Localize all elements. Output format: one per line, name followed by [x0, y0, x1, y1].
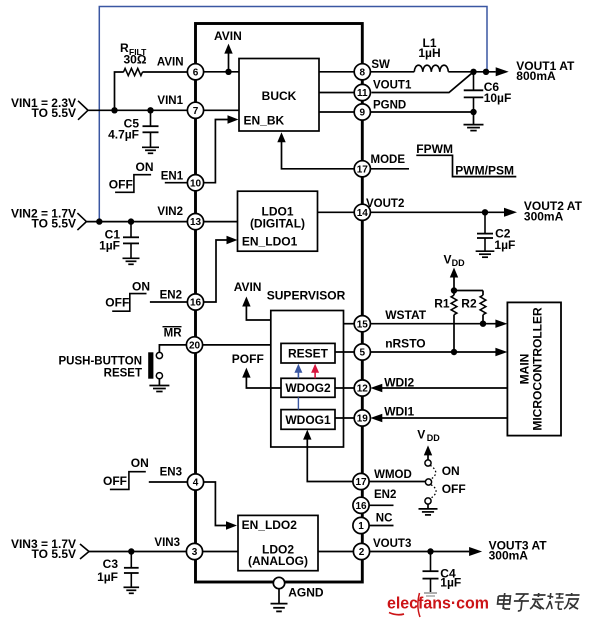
op-amp U2 LDO1 block — [238, 191, 318, 251]
wire VOUT3 — [369, 548, 469, 554]
wire LDO1 to VOUT2 pin — [318, 211, 355, 213]
wire LDO2 to VOUT3 pin — [318, 551, 354, 553]
svg-text:AVIN: AVIN — [214, 29, 242, 43]
capacitor C2 1uF — [476, 212, 516, 257]
svg-text:VOUT3: VOUT3 — [373, 538, 411, 550]
svg-text:30Ω: 30Ω — [124, 53, 147, 67]
wire WDI2 — [370, 384, 507, 392]
wire BUCK to SW pin — [319, 71, 355, 73]
pin 8 SW — [354, 59, 390, 80]
wire WDOG1 to WDOG2 (blue) — [297, 397, 299, 409]
wire nRSTO — [370, 348, 507, 356]
svg-text:(DIGITAL): (DIGITAL) — [250, 217, 305, 231]
svg-text:OFF: OFF — [103, 474, 127, 488]
svg-text:6: 6 — [193, 67, 199, 78]
svg-text:15: 15 — [357, 319, 369, 330]
pin 17 WMOD — [353, 469, 412, 490]
svg-text:AGND: AGND — [288, 586, 324, 600]
svg-text:V: V — [444, 252, 452, 266]
pin 1 NC — [353, 513, 394, 534]
pin 6 AVIN — [157, 56, 204, 80]
svg-text:MAIN: MAIN — [518, 354, 532, 385]
svg-text:VIN2: VIN2 — [157, 206, 183, 218]
pin AGND — [273, 577, 324, 603]
svg-text:20: 20 — [189, 341, 201, 352]
svg-text:PUSH-BUTTON: PUSH-BUTTON — [59, 356, 142, 368]
svg-text:1µH: 1µH — [418, 46, 440, 60]
svg-text:EN2: EN2 — [374, 489, 396, 501]
watermark elecfans.com — [387, 593, 489, 617]
pin 13 VIN2 — [157, 206, 203, 230]
RESET sub-block — [281, 343, 335, 363]
svg-text:AVIN: AVIN — [157, 56, 184, 68]
svg-text:12: 12 — [357, 384, 369, 395]
WDOG1 sub-block — [281, 410, 335, 430]
svg-text:ON: ON — [131, 456, 149, 470]
pin 3 VIN3 — [154, 537, 202, 560]
pin 17 MODE — [354, 154, 409, 177]
svg-text:(ANALOG): (ANALOG) — [248, 554, 308, 568]
svg-text:EN_BK: EN_BK — [244, 113, 285, 127]
svg-text:9: 9 — [360, 108, 366, 119]
wire PGND — [371, 109, 477, 125]
wire VIN3 to LDO2 — [202, 551, 238, 553]
IC outline ADP5037 — [196, 24, 363, 583]
svg-text:OFF: OFF — [109, 177, 133, 191]
resistor R1 — [434, 287, 457, 352]
svg-text:VIN3: VIN3 — [154, 537, 180, 549]
supervisor block — [267, 289, 346, 447]
svg-text:R2: R2 — [461, 297, 477, 311]
wire EN2 to EN_LDO1 — [203, 236, 237, 302]
svg-text:ON: ON — [136, 160, 154, 174]
resistor RFILT 30ohm — [115, 41, 188, 110]
svg-text:16: 16 — [355, 501, 367, 512]
svg-text:OFF: OFF — [442, 482, 466, 496]
svg-text:10: 10 — [190, 178, 202, 189]
main microcontroller block — [507, 302, 561, 435]
node AVIN internal rail — [214, 29, 242, 72]
wire BUCK to PGND pin — [319, 111, 355, 113]
node VIN2 input — [11, 207, 86, 231]
svg-text:PGND: PGND — [373, 100, 406, 112]
pin 16 EN2 (right) — [353, 489, 396, 514]
pin 11 VOUT1 — [354, 80, 412, 101]
wire EN3 to EN_LDO2 — [203, 482, 237, 530]
wire WSTAT — [370, 320, 507, 328]
svg-text:ON: ON — [442, 464, 460, 478]
node VIN3 input — [11, 537, 89, 561]
pin 4 EN3 — [187, 474, 203, 490]
svg-text:1µF: 1µF — [99, 238, 120, 252]
wire EN1 — [161, 171, 188, 183]
wire RESET to nRSTO pin — [335, 351, 354, 353]
node VOUT3 output — [469, 539, 547, 563]
svg-text:WDOG1: WDOG1 — [285, 413, 331, 427]
watermark chinese characters — [497, 593, 580, 611]
svg-text:R1: R1 — [434, 297, 450, 311]
wire EN3 — [149, 467, 188, 482]
push-button SW reset — [59, 352, 163, 385]
svg-text:3: 3 — [192, 547, 198, 558]
svg-text:5: 5 — [360, 348, 366, 359]
wire VOUT2 — [370, 209, 504, 215]
svg-text:8: 8 — [360, 67, 366, 78]
wire BUCK to VOUT1 pin — [319, 92, 355, 94]
capacitor C1 1uF — [99, 222, 139, 265]
ground (push-button) — [149, 386, 169, 392]
svg-text:AVIN: AVIN — [234, 280, 262, 294]
svg-text:19: 19 — [357, 414, 369, 425]
node VDD (watchdog mode switch) — [417, 427, 440, 460]
pin 16 EN2 — [187, 294, 203, 310]
inductor L1 1uH — [370, 36, 496, 72]
capacitor C4 1uF — [423, 552, 462, 593]
capacitor C6 10uF — [464, 72, 512, 112]
svg-text:EN3: EN3 — [160, 467, 182, 479]
WDOG2 sub-block — [281, 378, 335, 397]
svg-text:VOUT1: VOUT1 — [373, 80, 412, 92]
svg-text:WDOG2: WDOG2 — [285, 381, 331, 395]
capacitor C3 1uF — [97, 552, 139, 594]
svg-text:VOUT2: VOUT2 — [366, 198, 404, 210]
svg-text:1µF: 1µF — [440, 576, 461, 590]
wire WMOD to WDOG1 — [303, 430, 353, 482]
svg-text:FPWM: FPWM — [416, 142, 453, 156]
svg-text:SUPERVISOR: SUPERVISOR — [267, 289, 346, 303]
node MR push-button reset input — [163, 327, 183, 340]
wire VIN1 to BUCK — [203, 109, 239, 111]
wire WDI1 — [370, 414, 507, 422]
svg-text:4: 4 — [193, 478, 199, 489]
svg-text:POFF: POFF — [232, 352, 264, 366]
svg-text:C3: C3 — [103, 557, 119, 571]
op-amp U3 LDO2 block — [238, 515, 318, 570]
svg-text:DD: DD — [452, 258, 465, 268]
resistor R2 — [454, 291, 486, 324]
wire EN2 — [150, 290, 188, 302]
svg-text:7: 7 — [193, 106, 199, 117]
svg-text:1µF: 1µF — [97, 570, 118, 584]
svg-text:TO 5.5V: TO 5.5V — [32, 547, 76, 561]
svg-text:WDI1: WDI1 — [384, 405, 414, 419]
node EN3 on/off input — [103, 456, 149, 489]
svg-text:MICROCONTROLLER: MICROCONTROLLER — [531, 307, 545, 431]
wire supervisor to WSTAT pin — [344, 323, 355, 325]
wire VIN3 — [89, 548, 187, 554]
node VOUT2 output — [504, 199, 583, 224]
svg-text:elecfans·com: elecfans·com — [387, 595, 489, 613]
svg-text:EN_LDO2: EN_LDO2 — [242, 518, 298, 532]
pin 5 nRSTO — [354, 337, 425, 360]
node AVIN to supervisor — [234, 280, 271, 320]
node VIN1 input — [11, 96, 88, 120]
svg-text:10µF: 10µF — [484, 91, 512, 105]
svg-text:EN1: EN1 — [161, 171, 184, 183]
svg-text:1: 1 — [358, 521, 364, 532]
pin 14 VOUT2 — [354, 198, 404, 220]
wire VOUT1-to-VIN2 feedback (blue) — [99, 7, 487, 222]
node EN2 on/off input — [105, 279, 150, 311]
switch SW watchdog on/off — [425, 460, 466, 509]
svg-text:WMOD: WMOD — [374, 469, 412, 481]
svg-text:17: 17 — [357, 164, 369, 175]
wire VIN2 — [86, 218, 187, 224]
svg-text:MODE: MODE — [371, 154, 406, 166]
pin 15 WSTAT — [354, 308, 427, 332]
ground (C4, faded) — [424, 593, 437, 596]
ground (AGND) — [271, 604, 288, 612]
wire MR — [159, 345, 186, 353]
wire VIN1 — [88, 107, 188, 113]
svg-text:11: 11 — [357, 88, 368, 99]
wire MODE to BUCK — [277, 132, 354, 169]
svg-text:BUCK: BUCK — [262, 89, 297, 103]
svg-text:VIN1: VIN1 — [157, 95, 183, 107]
svg-text:MR: MR — [164, 328, 183, 340]
wire WMOD to switch — [369, 481, 426, 483]
svg-text:OFF: OFF — [105, 296, 129, 310]
svg-text:16: 16 — [190, 298, 202, 309]
svg-text:13: 13 — [190, 217, 202, 228]
svg-text:SW: SW — [371, 59, 390, 71]
svg-text:EN2: EN2 — [160, 290, 182, 302]
svg-text:NC: NC — [376, 513, 393, 525]
wire WDOG2 to RESET (red arrow) — [311, 364, 319, 379]
pin 19 WDI1 — [354, 405, 414, 427]
wire WDOG1 to WDI1 pin — [335, 417, 354, 419]
wire WDOG2 to RESET (blue arrow) — [294, 364, 302, 379]
pin 9 PGND — [354, 100, 406, 121]
ground (switch) — [419, 509, 438, 515]
svg-text:1µF: 1µF — [494, 238, 515, 252]
pin 2 VOUT3 — [353, 538, 411, 560]
wire AVIN to BUCK — [203, 69, 239, 75]
svg-text:V: V — [417, 427, 425, 441]
svg-text:300mA: 300mA — [489, 549, 529, 563]
pin 7 VIN1 — [157, 95, 203, 118]
wire VOUT1 diagonal — [371, 72, 473, 93]
svg-text:RESET: RESET — [288, 347, 329, 361]
pin 12 WDI2 — [354, 376, 414, 397]
node FPWM / PWM-PSM mode select — [416, 142, 516, 177]
capacitor C5 4.7uF — [108, 110, 159, 153]
wire WDOG2 to WDI2 pin — [335, 387, 354, 389]
svg-text:RESET: RESET — [104, 368, 142, 380]
node VDD pull-up supply — [444, 252, 466, 290]
node VOUT1 output — [470, 59, 575, 83]
node POFF output — [232, 352, 281, 388]
svg-text:WSTAT: WSTAT — [385, 308, 427, 322]
ground (C6/PGND) — [464, 125, 484, 131]
svg-text:PWM/PSM: PWM/PSM — [455, 164, 514, 178]
svg-text:17: 17 — [355, 477, 367, 488]
node EN1 on/off input — [109, 160, 154, 192]
svg-text:DD: DD — [427, 433, 440, 443]
svg-text:TO 5.5V: TO 5.5V — [32, 217, 76, 231]
svg-text:EN_LDO1: EN_LDO1 — [242, 234, 298, 248]
svg-text:2: 2 — [359, 547, 365, 558]
op-amp U1 BUCK regulator block — [239, 59, 319, 132]
svg-text:4.7µF: 4.7µF — [108, 127, 139, 141]
svg-text:ON: ON — [132, 279, 150, 293]
svg-text:800mA: 800mA — [516, 69, 556, 83]
svg-text:nRSTO: nRSTO — [385, 337, 425, 351]
pin 20 MR — [186, 337, 202, 353]
pin 10 EN1 — [187, 175, 203, 191]
wire EN1 to EN_BK — [203, 115, 238, 182]
svg-text:300mA: 300mA — [524, 210, 564, 224]
svg-text:TO 5.5V: TO 5.5V — [32, 106, 76, 120]
wire MR to supervisor — [202, 344, 271, 346]
wire VIN2 to LDO1 — [203, 221, 237, 223]
